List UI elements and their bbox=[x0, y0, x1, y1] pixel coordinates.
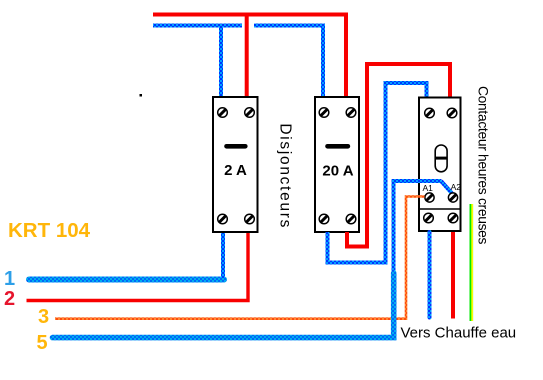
screw 20A top-right bbox=[346, 108, 356, 118]
wire red phase drop to 2A breaker bbox=[245, 16, 249, 96]
toggle bar 20A bbox=[328, 144, 348, 149]
svg-text:20 A: 20 A bbox=[322, 163, 353, 180]
svg-text:Vers Chauffe eau: Vers Chauffe eau bbox=[401, 325, 517, 342]
contactor divider line bbox=[419, 208, 461, 210]
svg-text:5: 5 bbox=[37, 332, 48, 354]
wire blue neutral bus left segment bbox=[153, 24, 242, 28]
stray black dot bbox=[140, 94, 143, 97]
wire 1 riser to 2A breaker bbox=[221, 233, 225, 278]
wire blue neutral drop to 2A breaker bbox=[219, 27, 223, 96]
screw 2A bottom-left bbox=[218, 214, 228, 224]
screw 2A top-left bbox=[218, 108, 228, 118]
svg-text:3: 3 bbox=[38, 306, 49, 328]
screw contactor A1 bbox=[425, 193, 434, 202]
screw contactor A2 bbox=[448, 193, 457, 202]
toggle bar 2A bbox=[227, 144, 246, 149]
wire thin blue from A2 down to thick blue riser bbox=[394, 181, 442, 273]
svg-text:KRT 104: KRT 104 bbox=[8, 219, 91, 242]
svg-text:A1: A1 bbox=[423, 183, 434, 193]
wire blue neutral bus right segment to 20A breaker bbox=[254, 26, 323, 97]
wire thin blue diagonal into A2 bbox=[441, 181, 453, 194]
screw contactor top-left bbox=[425, 108, 435, 118]
svg-text:2: 2 bbox=[4, 288, 15, 310]
wire 3 orange to contactor A1 bbox=[55, 197, 425, 319]
contactor box bbox=[419, 98, 461, 232]
breaker 20A box bbox=[315, 97, 359, 232]
wire red contactor output stub bbox=[451, 232, 455, 319]
svg-text:Contacteur heures creuses: Contacteur heures creuses bbox=[475, 86, 490, 245]
screw contactor bottom-left bbox=[424, 213, 434, 223]
wire 5 thick blue riser to A2 wire bbox=[53, 273, 394, 338]
wire 2 red to 2A breaker bbox=[27, 233, 249, 301]
wire blue contactor output stub bbox=[428, 232, 432, 318]
screw 20A top-left bbox=[319, 108, 329, 118]
contactor switch stadium bbox=[435, 145, 447, 172]
wire 1 thick blue bbox=[29, 277, 224, 283]
screw 20A bottom-right bbox=[346, 214, 356, 224]
wire blue from 20A output up over to contactor bbox=[328, 83, 427, 263]
svg-text:Disjoncteurs: Disjoncteurs bbox=[277, 123, 294, 229]
screw 2A top-right bbox=[245, 108, 255, 118]
wire red from 20A output up over to contactor bbox=[347, 64, 450, 247]
screw contactor bottom-right bbox=[448, 213, 458, 223]
screw 2A bottom-right bbox=[245, 214, 255, 224]
wire green pilot line bbox=[469, 204, 473, 321]
screw contactor top-right bbox=[447, 108, 457, 118]
wire red phase bus top bbox=[153, 15, 346, 97]
screw 20A bottom-left bbox=[319, 214, 329, 224]
breaker 2A box bbox=[213, 97, 258, 232]
svg-text:2 A: 2 A bbox=[224, 162, 247, 179]
svg-text:A2: A2 bbox=[451, 182, 462, 192]
svg-text:1: 1 bbox=[4, 268, 15, 290]
